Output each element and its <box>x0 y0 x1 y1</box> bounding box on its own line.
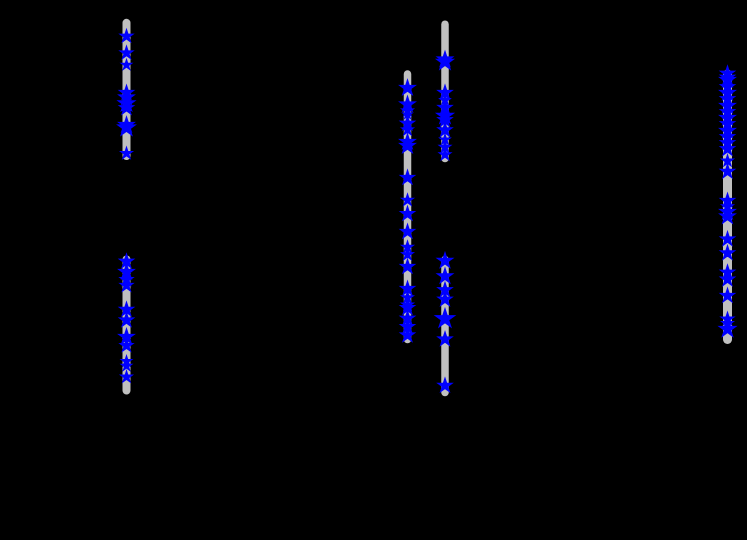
markers col3 <box>436 52 453 391</box>
bar col3 upper <box>441 24 449 158</box>
markers col4 <box>720 67 735 336</box>
bar col1 lower <box>123 260 131 391</box>
bar col4 <box>723 74 732 340</box>
markers col1 <box>119 30 135 382</box>
bar col1 upper <box>123 23 131 156</box>
bar col2 <box>404 74 412 340</box>
bar col3 lower <box>441 260 449 393</box>
markers col2 <box>400 81 414 341</box>
